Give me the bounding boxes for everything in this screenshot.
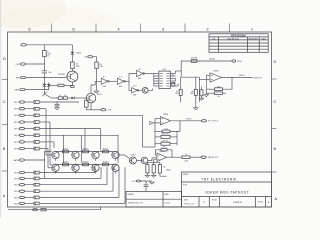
border frame [8, 32, 272, 207]
resistor R24 [83, 163, 89, 166]
resistor R44 [200, 90, 203, 96]
capacitor C2 [56, 102, 58, 104]
svg-text:KEY 6: KEY 6 [14, 135, 19, 137]
svg-text:BC547: BC547 [103, 161, 108, 163]
transistor Q2 [67, 71, 78, 82]
svg-text:TAPEOUT: TAPEOUT [208, 156, 219, 159]
wire R1a to C1 [43, 57, 45, 71]
left zone tick D/C [2, 79, 8, 81]
connector J19 sync [232, 60, 236, 62]
resistor R22 [103, 150, 109, 153]
resistor R3 [34, 114, 39, 117]
wire Q10 stubs [55, 150, 57, 152]
IC U4 [159, 71, 170, 88]
svg-text:1:5: 1:5 [203, 202, 205, 204]
wire riser J11 [106, 168, 108, 185]
right zone tick B/A [272, 171, 277, 173]
transistor Q16 [92, 164, 99, 171]
inverter U5C [137, 70, 143, 76]
svg-text:APPROVED: APPROVED [249, 37, 259, 40]
transistor Q18 [130, 157, 137, 164]
diode D3 [47, 84, 50, 87]
transistor Q17 [112, 164, 119, 171]
wire R2a to Q2 [71, 69, 73, 72]
wire U2 lower loop left [154, 131, 156, 147]
svg-text:10k: 10k [191, 91, 194, 93]
wire J25 [141, 181, 146, 185]
svg-text:D: D [274, 60, 277, 64]
wire U2 lower loop right [176, 131, 178, 145]
op-amp U2 [161, 117, 171, 126]
svg-text:TRG 1: TRG 1 [14, 172, 19, 174]
wire U3 feedback [156, 150, 162, 155]
svg-text:TRG 3: TRG 3 [14, 185, 19, 187]
wire J1 to R1 [25, 101, 35, 103]
wire array row2 rail [56, 164, 116, 166]
wire U1 plus input [199, 78, 210, 80]
wire +5V [93, 57, 97, 62]
svg-text:45 3: 45 3 [119, 77, 122, 79]
wire row1 to Q18 [119, 155, 129, 159]
diode D1 [43, 84, 47, 87]
wire riser J13 [118, 168, 120, 198]
wire Q13 stubs [115, 150, 117, 152]
ground GND10 [96, 81, 98, 91]
svg-text:SH 1/1: SH 1/1 [258, 202, 263, 204]
wire U2 minus input [155, 118, 161, 120]
svg-text:JOKER MIDI-TAPEOUT: JOKER MIDI-TAPEOUT [205, 190, 249, 194]
wire C3 down [145, 187, 147, 192]
diode D4 [72, 97, 75, 100]
revision table [209, 34, 268, 53]
transistor Q3 [86, 93, 96, 103]
transistor Q14 [52, 164, 59, 171]
ground GND7 [205, 89, 207, 94]
svg-text:100k: 100k [162, 147, 166, 149]
svg-text:TRG 5: TRG 5 [14, 197, 19, 199]
resistor R36 [161, 135, 170, 138]
svg-text:100n: 100n [48, 72, 51, 74]
inverter U5A [101, 78, 107, 84]
wire Q18 to Q19 [137, 160, 142, 162]
wire J8 to R8 [25, 148, 35, 150]
wire R44 top [200, 87, 202, 90]
svg-text:100k: 100k [164, 128, 168, 130]
svg-text:4069: 4069 [133, 95, 137, 97]
wire U3 output [167, 156, 183, 158]
resistor R30 feedback U3 [161, 149, 167, 151]
svg-text:FSCM: FSCM [212, 199, 217, 201]
ground GND6 [153, 173, 155, 175]
resistor R31 [182, 156, 190, 159]
wire R4 output [40, 121, 50, 123]
wire array row1 rail [56, 151, 116, 153]
svg-text:10k: 10k [163, 166, 166, 168]
resistor R23 [63, 163, 69, 166]
wire riser J14 [124, 168, 126, 204]
wire J9 to R9 [25, 172, 34, 174]
svg-text:TNT ELEKTRONIK: TNT ELEKTRONIK [201, 177, 237, 181]
resistor R4 [34, 121, 39, 124]
wire row98 [52, 97, 59, 99]
wire x72 drop [71, 45, 73, 52]
wire riser J10 [100, 168, 102, 179]
wire sync feed riser [180, 61, 182, 77]
wire R12 output [40, 190, 113, 192]
wire J23 [25, 89, 49, 91]
resistor R8 [34, 147, 39, 150]
resistor R25 [103, 163, 109, 166]
svg-text:KEY 3: KEY 3 [14, 115, 19, 117]
svg-text:LM358: LM358 [166, 170, 171, 172]
svg-text:BC547: BC547 [63, 161, 68, 163]
wire riser J2 [45, 109, 47, 155]
svg-text:4k7: 4k7 [76, 64, 78, 66]
resistor R5 [34, 127, 39, 130]
svg-text:18.5.91: 18.5.91 [165, 202, 171, 204]
svg-text:1/4W: 1/4W [184, 160, 188, 162]
wire R11 output [40, 184, 107, 186]
connector J24 +12V [101, 109, 106, 111]
connector J20 [21, 44, 26, 47]
resistor R50 [95, 62, 98, 69]
resistor R54 [63, 97, 67, 100]
wire U1 output [222, 76, 253, 78]
wire R7 output [40, 141, 54, 143]
wire R31 to J17 [190, 156, 201, 158]
top zone tick 6/5 [51, 24, 53, 33]
svg-text:10k: 10k [217, 96, 220, 98]
wire Q12 stubs [95, 150, 97, 152]
svg-text:4k7: 4k7 [176, 91, 178, 93]
svg-text:SUB OUT: SUB OUT [254, 77, 263, 79]
left zone tick B/A [2, 170, 8, 172]
inverter U5B [117, 78, 123, 84]
wire J21 [25, 63, 44, 65]
wire bus drop x67.5 [84, 129, 86, 151]
svg-text:GATE: GATE [15, 88, 21, 91]
wire Q19 to opamp U3 [148, 158, 157, 161]
svg-text:KEY 8: KEY 8 [14, 148, 19, 150]
ground GND1 [55, 108, 60, 110]
transistor Q12 [92, 151, 99, 158]
wire R46 bottom to ground [195, 95, 197, 107]
wire Q11 stubs [75, 150, 77, 152]
wire trimmer diagonal [44, 94, 51, 98]
svg-text:SIZE: SIZE [184, 200, 188, 202]
wire to U5C [129, 74, 137, 82]
wire array left rail [43, 152, 45, 179]
ground GND4 [194, 108, 199, 110]
op-amp U1 [210, 73, 222, 82]
svg-text:100k: 100k [217, 86, 221, 88]
wire J22 to Q2 base [26, 77, 68, 79]
wire sync row [181, 60, 232, 62]
wire J20 top run [26, 44, 72, 46]
svg-text:10k: 10k [99, 64, 102, 66]
svg-text:TRG 6: TRG 6 [14, 203, 19, 205]
wire R5 output [40, 128, 100, 130]
top zone tick 2/1 [229, 24, 231, 33]
svg-text:BC547: BC547 [83, 161, 88, 163]
wire C1 to D1 [43, 73, 45, 84]
right zone tick D/C [272, 78, 277, 80]
wire riser J4 [49, 122, 51, 165]
wire U1 feedback [223, 77, 233, 89]
resistor R1 [34, 101, 39, 104]
wire Q16 stubs [95, 163, 97, 165]
svg-text:KEY 5: KEY 5 [14, 129, 19, 131]
transistor Q10 [52, 151, 59, 158]
wire Q4 out [148, 89, 152, 91]
wire R13 output [40, 196, 119, 198]
capacitor C1 [42, 70, 47, 72]
wire J13 to R13 [25, 196, 34, 198]
ground GND5 [146, 173, 148, 175]
wire J14 to R14 [25, 202, 34, 204]
wire Q17 stubs [115, 163, 117, 165]
wire J3 to R3 [25, 114, 35, 116]
resistor R9 [34, 171, 39, 174]
wire U5B output [125, 80, 129, 82]
wire R52 to Q2 [64, 84, 72, 86]
svg-text:4069: 4069 [119, 86, 123, 88]
wire bus drop x70.0 [63, 135, 65, 163]
wire J15 [25, 159, 45, 161]
wire U5D to Q4 [139, 89, 143, 91]
resistor R32 [146, 165, 149, 173]
transistor Q4 [142, 87, 148, 93]
wire J2 to R2 [25, 108, 35, 110]
wire U1 minus input [206, 74, 210, 76]
wire Q3 emitter [90, 103, 92, 110]
wire riser J12 [112, 168, 114, 191]
wire R8 output [40, 148, 48, 150]
svg-text:TRG 2: TRG 2 [14, 178, 19, 180]
svg-text:SYNC: SYNC [237, 61, 243, 63]
svg-text:JOKER-02: JOKER-02 [233, 202, 242, 204]
svg-text:TRG 4: TRG 4 [14, 191, 19, 193]
wire U4 left pin rail [153, 74, 155, 87]
resistor R34 [158, 165, 161, 173]
wire D1 down [43, 87, 45, 94]
wire J10 to R10 [25, 177, 34, 179]
svg-text:DESCRIPTION: DESCRIPTION [227, 38, 239, 40]
wire bus drop x118.0 [117, 135, 119, 163]
transistor Q11 [72, 151, 79, 158]
wire U2 output [171, 120, 202, 122]
resistor R45 [179, 89, 182, 95]
op-amp U3 [157, 153, 167, 162]
connector J16 below frame [8, 209, 101, 211]
wire vertical x199 [198, 77, 200, 102]
svg-text:1k: 1k [185, 154, 187, 156]
wire J6 to R6 [25, 134, 35, 136]
svg-text:10k 1/4W: 10k 1/4W [191, 58, 198, 60]
resistor R20 [63, 150, 69, 153]
ground GND8 [200, 96, 202, 98]
wire R9 output [40, 172, 95, 174]
resistor R13 [34, 196, 39, 199]
wire J16 riser [100, 206, 102, 210]
svg-text:REVISIONS: REVISIONS [231, 35, 246, 38]
diode D2 [71, 52, 75, 55]
svg-text:SUB 10k: SUB 10k [239, 75, 245, 77]
wire long run J3 to U2 loop [141, 115, 143, 147]
top zone tick 3/2 [184, 24, 186, 33]
svg-text:PHT. 17.5.91: PHT. 17.5.91 [185, 204, 194, 206]
svg-text:KEY 7: KEY 7 [14, 142, 19, 144]
svg-text:45 2: 45 2 [138, 69, 141, 71]
wire U3 input network [147, 162, 160, 164]
resistor R53 [58, 97, 62, 100]
wire riser J7 [53, 142, 55, 148]
wire R36 leads [155, 136, 161, 138]
resistor R43 [215, 92, 223, 95]
wire riser J9 [94, 168, 96, 173]
svg-text:4017: 4017 [163, 69, 167, 71]
wire U2 feedback [170, 121, 180, 132]
svg-text:BC557: BC557 [131, 155, 136, 157]
wire R55 bottom [85, 107, 87, 110]
svg-text:LM358: LM358 [163, 114, 168, 116]
wire bus drop x89.0 [100, 129, 102, 151]
transistor Q15 [72, 164, 79, 171]
svg-text:45 1: 45 1 [103, 77, 106, 79]
svg-text:H.MUELLER 4.5.91: H.MUELLER 4.5.91 [128, 202, 143, 204]
inverter U5D [132, 88, 138, 93]
wire bus drop x91.5 [80, 135, 82, 163]
wire Q14 stubs [55, 163, 57, 165]
svg-text:KEY 4: KEY 4 [14, 122, 19, 124]
svg-text:KEY 1: KEY 1 [14, 102, 19, 104]
top zone tick 4/3 [140, 24, 142, 33]
svg-text:1V/OCT: 1V/OCT [186, 119, 192, 121]
svg-text:BC547: BC547 [83, 148, 88, 150]
wire J4 to R4 [25, 121, 35, 123]
wire R14 output [40, 202, 125, 204]
wire D4 to Q3 [74, 97, 86, 99]
wire R46 top [195, 77, 197, 89]
wire R54 to D4 [67, 97, 71, 99]
resistor R40 [191, 60, 197, 63]
wire Q15 stubs [75, 163, 77, 165]
resistor R14 [34, 202, 39, 205]
wire R6 output [40, 134, 118, 136]
wire riser J8 [47, 149, 49, 168]
svg-text:TITLE: TITLE [183, 184, 187, 186]
svg-text:C: C [3, 100, 6, 104]
connector J17 tapeout [201, 156, 206, 158]
svg-text:D: D [3, 57, 6, 61]
svg-text:4069: 4069 [138, 78, 142, 80]
resistor R55 [85, 100, 89, 107]
transistor Q19 [141, 157, 148, 164]
resistor R21 [83, 150, 89, 153]
U4 pin stubs [154, 73, 159, 75]
wire R1 output [40, 101, 79, 103]
wire bus feed h77 [181, 76, 199, 78]
resistor R2 [34, 107, 39, 110]
wire U5A to U5B [109, 80, 117, 82]
wire J5 to R5 [25, 128, 35, 130]
ground GND3 at U2 plus [153, 122, 161, 124]
svg-text:1N4148: 1N4148 [76, 53, 81, 55]
svg-text:BC547: BC547 [63, 148, 68, 150]
wire U5B to U5D [129, 81, 132, 90]
resistor R7 [34, 141, 39, 144]
resistor R1a [43, 51, 47, 57]
svg-text:KEY 2: KEY 2 [14, 109, 19, 111]
wire Q2 emitter [71, 82, 73, 85]
resistor R37 [161, 142, 170, 145]
svg-text:LM358: LM358 [213, 71, 218, 73]
connector J18 pitch [201, 120, 206, 122]
resistor R42 feedback U1 [215, 88, 223, 91]
resistor R6 [34, 134, 39, 137]
resistor R33 [152, 165, 155, 173]
top zone tick 5/4 [95, 24, 97, 33]
wire J12 to R12 [25, 190, 34, 192]
svg-text:150: 150 [59, 95, 61, 97]
wire R37 leads [155, 143, 161, 145]
svg-text:PITCHCV: PITCHCV [208, 121, 219, 123]
svg-text:4069: 4069 [103, 86, 107, 88]
svg-text:BD243: BD243 [97, 94, 102, 96]
svg-text:4k7: 4k7 [64, 95, 66, 97]
svg-text:A: A [3, 194, 6, 198]
wire Q3 collector [91, 85, 95, 93]
wire R10 output [40, 177, 101, 179]
svg-text:BC547: BC547 [103, 148, 108, 150]
resistor R35 feedback U2 [162, 130, 170, 133]
svg-text:C: C [274, 100, 277, 104]
wire J11 to R11 [25, 184, 34, 186]
ground GND9 [146, 180, 152, 182]
capacitor C3 [144, 184, 149, 186]
wire R43 leads [206, 92, 214, 94]
resistor R12 [34, 190, 39, 193]
wire J7 to R7 [25, 141, 35, 143]
title block left sub-table [126, 191, 182, 207]
wire R2 output [40, 108, 46, 110]
wire Q2 emitter row [49, 84, 58, 86]
svg-text:GATE2: GATE2 [13, 159, 19, 162]
wire U5C to U4 [144, 73, 153, 75]
svg-text:B: B [3, 147, 6, 151]
resistor R10 [34, 177, 39, 180]
wire R3 output [40, 114, 142, 116]
resistor R2a [71, 62, 75, 69]
resistor R46 [194, 89, 197, 95]
left zone tick C/B [2, 124, 8, 126]
wire U4 right ladder [172, 74, 174, 77]
resistor R11 [34, 183, 39, 186]
connector J26 emitter [71, 86, 75, 88]
wire R45 leads [180, 77, 182, 89]
wire drop x44 [43, 45, 45, 51]
wire R34 bottom [160, 173, 166, 176]
svg-text:45 14: 45 14 [133, 86, 137, 88]
resistor R52 [58, 84, 64, 86]
transistor Q13 [112, 151, 119, 158]
title block [182, 172, 272, 207]
box U4 aux [172, 82, 175, 86]
wire R50 to U5A [97, 69, 102, 82]
svg-text:1/4W: 1/4W [99, 66, 103, 68]
wire D2 to R2a [71, 55, 73, 63]
right zone tick C/B [272, 128, 277, 130]
